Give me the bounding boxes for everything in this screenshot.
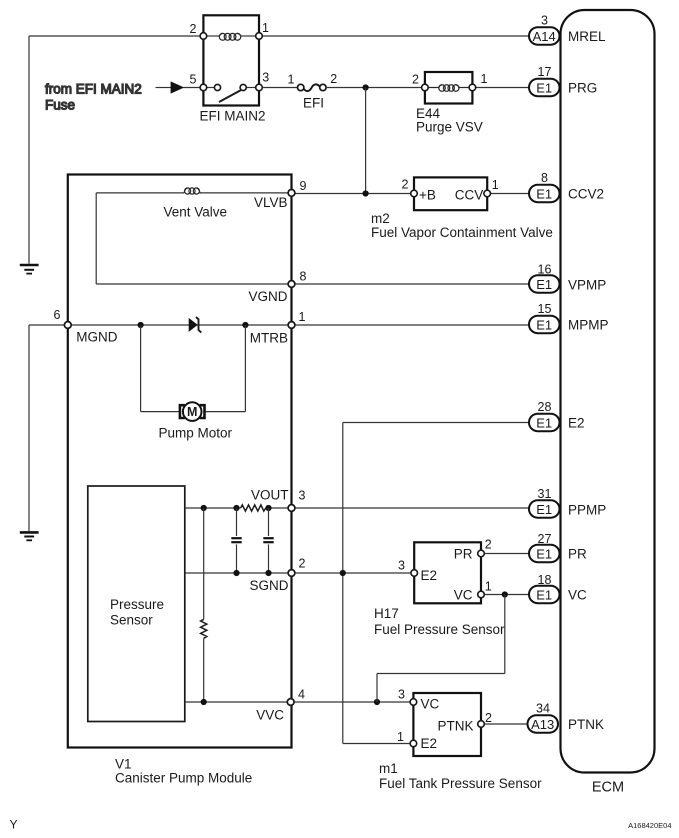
motor M pump motor (183, 402, 202, 421)
svg-text:MREL: MREL (568, 29, 606, 44)
terminal 1 E2 of m1 (410, 740, 417, 747)
svg-text:2: 2 (412, 73, 419, 87)
svg-text:MGND: MGND (76, 330, 117, 345)
svg-text:EFI MAIN2: EFI MAIN2 (200, 109, 266, 124)
svg-text:A14: A14 (533, 29, 556, 44)
wire CCV to CCV2 (491, 193, 530, 195)
svg-text:E1: E1 (536, 277, 552, 292)
switch blade (219, 90, 241, 102)
svg-text:Purge VSV: Purge VSV (416, 120, 483, 135)
terminal 2 (+B) (411, 190, 418, 197)
wire VSV to PRG (476, 87, 529, 89)
switch contact left (214, 84, 220, 90)
svg-text:1: 1 (397, 730, 404, 744)
svg-text:PRG: PRG (568, 81, 597, 96)
svg-text:A168420E04: A168420E04 (628, 821, 671, 830)
svg-text:Canister Pump Module: Canister Pump Module (115, 771, 252, 786)
terminal 2 PTNK of m1 (478, 721, 485, 728)
terminal 2 SGND (288, 570, 295, 577)
resistor vertical branch (201, 508, 207, 702)
node junction left of diode (138, 322, 144, 328)
svg-text:E2: E2 (421, 568, 438, 583)
svg-text:PR: PR (568, 547, 587, 562)
sensor H17 Fuel Pressure Sensor (414, 542, 481, 603)
terminal 5 of relay (200, 84, 207, 91)
node junction E2/SGND (340, 570, 346, 576)
terminal 3 VOUT (288, 505, 295, 512)
svg-text:Pressure: Pressure (110, 597, 164, 612)
wire top horizontal left segment (29, 35, 203, 37)
wire MGND horizontal stub (29, 324, 64, 326)
SECTION: v1 module (54, 175, 530, 786)
svg-text:VOUT: VOUT (251, 487, 289, 502)
coil of purge VSV (428, 85, 469, 91)
svg-text:27: 27 (538, 532, 552, 546)
svg-text:PTNK: PTNK (568, 717, 604, 732)
SECTION: footer (10, 818, 672, 832)
wire arrow shaft (156, 87, 172, 89)
node junctions on VOUT wire (201, 505, 207, 511)
SECTION: ccv (295, 177, 553, 240)
svg-text:2: 2 (299, 557, 306, 571)
vent valve loop wire (96, 193, 288, 284)
svg-text:Fuel Pressure Sensor: Fuel Pressure Sensor (374, 622, 505, 637)
svg-text:VC: VC (568, 588, 587, 603)
connector E1 VPMP pin 16 (529, 263, 606, 293)
terminal 1 MTRB (288, 322, 295, 329)
terminal 3 E2 of H17 (411, 570, 418, 577)
connector E1 VC pin 18 (529, 573, 587, 603)
diode (189, 318, 198, 332)
wire MTRB to MPMP (295, 324, 529, 326)
svg-text:2: 2 (485, 711, 492, 725)
svg-text:1: 1 (288, 73, 295, 87)
svg-text:MTRB: MTRB (250, 331, 288, 346)
wire E2 from ECM down to SGND junction (343, 423, 529, 744)
node arrow from EFI MAIN2 fuse (171, 81, 185, 93)
svg-text:PTNK: PTNK (437, 718, 473, 733)
connector E1 PR pin 27 (529, 532, 587, 562)
svg-text:Sensor: Sensor (110, 613, 153, 628)
svg-text:1: 1 (299, 310, 306, 324)
svg-text:Fuse: Fuse (45, 98, 75, 113)
svg-text:CCV: CCV (455, 188, 484, 203)
svg-text:15: 15 (538, 302, 552, 316)
wire motor branch (141, 325, 246, 412)
svg-text:Fuel Vapor Containment Valve: Fuel Vapor Containment Valve (371, 225, 553, 240)
wire top horizontal right segment to MREL (259, 35, 529, 37)
terminal 1 (CCV) (484, 190, 491, 197)
svg-text:VC: VC (454, 587, 473, 602)
svg-text:CCV2: CCV2 (568, 187, 604, 202)
terminal 3 VC of m1 (410, 699, 417, 706)
node junction on PRG wire (363, 84, 369, 90)
wire E2 bottom row (343, 743, 410, 745)
svg-text:SGND: SGND (249, 578, 288, 593)
relay EFI MAIN2 (203, 15, 259, 105)
svg-text:1: 1 (485, 580, 492, 594)
wire fuse to VSV (326, 87, 422, 89)
svg-text:E2: E2 (568, 416, 585, 431)
wire VVC row (185, 701, 410, 703)
svg-text:VLVB: VLVB (254, 195, 288, 210)
switch contact right (240, 84, 246, 90)
svg-text:6: 6 (54, 308, 61, 322)
wire VC down to fuel tank sensor VC (377, 595, 505, 703)
wire from arrow to relay pin 5 (184, 87, 201, 89)
svg-text:3: 3 (398, 688, 405, 702)
svg-text:MPMP: MPMP (568, 318, 609, 333)
wire PTNK to ECM A13 (485, 723, 528, 725)
resistor horizontal (241, 505, 266, 511)
coil of relay (207, 33, 256, 40)
node junction on CCV wire (363, 190, 369, 196)
svg-text:VPMP: VPMP (568, 278, 606, 293)
svg-text:28: 28 (538, 400, 552, 414)
module V1 Canister Pump Module (68, 175, 292, 748)
svg-text:VVC: VVC (256, 707, 284, 722)
connector E1 E2 pin 28 (529, 400, 585, 431)
SECTION: sensors (295, 423, 542, 792)
svg-text:1: 1 (481, 72, 488, 86)
svg-text:1: 1 (492, 178, 499, 192)
svg-text:5: 5 (190, 73, 197, 87)
node junctions on SGND wire (233, 570, 239, 576)
svg-text:Fuel Tank Pressure Sensor: Fuel Tank Pressure Sensor (379, 776, 542, 791)
svg-text:VGND: VGND (248, 289, 287, 304)
svg-text:1: 1 (262, 21, 269, 35)
wire PR to ECM (485, 553, 530, 555)
svg-text:E1: E1 (536, 80, 552, 95)
coil vent valve (184, 188, 203, 194)
svg-text:8: 8 (300, 270, 307, 284)
wire SGND junction to H17 E2 (295, 572, 410, 574)
svg-text:E1: E1 (536, 587, 552, 602)
svg-text:Vent Valve: Vent Valve (164, 205, 228, 220)
wire inside relay row2 (207, 87, 256, 89)
svg-text:M: M (187, 405, 197, 419)
svg-text:8: 8 (541, 171, 548, 185)
capacitor 2 (263, 508, 273, 573)
sensor m1 Fuel Tank Pressure Sensor (413, 693, 481, 756)
wire SGND row (185, 572, 288, 574)
terminal 6 MGND (64, 322, 71, 329)
connector A13 PTNK pin 34 (528, 702, 605, 733)
svg-text:Y: Y (10, 818, 18, 832)
wire left vertical to ground 1 (28, 36, 30, 264)
connector A14 MREL pin 3 (529, 14, 606, 45)
svg-text:PR: PR (454, 547, 473, 562)
svg-text:E2: E2 (421, 736, 438, 751)
svg-text:V1: V1 (115, 757, 132, 772)
SECTION: top-left wires (20, 36, 529, 540)
wire VGND to VPMP (295, 283, 529, 285)
svg-text:3: 3 (262, 71, 269, 85)
svg-text:Pump Motor: Pump Motor (159, 426, 233, 441)
svg-text:17: 17 (538, 65, 552, 79)
terminal 1 of VSV (469, 84, 476, 91)
svg-text:31: 31 (538, 487, 552, 501)
ground (20, 532, 39, 540)
sensor box Pressure Sensor (88, 486, 185, 722)
svg-text:E1: E1 (536, 186, 552, 201)
svg-text:2: 2 (402, 178, 409, 192)
node junctions on VVC wire (201, 699, 207, 705)
SECTION: fuse-vsv (262, 72, 529, 194)
terminal 3 of relay (256, 84, 263, 91)
svg-text:34: 34 (536, 702, 550, 716)
valve E44 Purge VSV (425, 72, 473, 104)
terminal 9 VLVB (288, 190, 295, 197)
ground (20, 265, 39, 274)
fuse EFI (304, 84, 320, 91)
svg-text:16: 16 (538, 263, 552, 277)
wire MGND row (71, 324, 288, 326)
svg-text:H17: H17 (374, 606, 399, 621)
wire relay pin3 to fuse (262, 87, 297, 89)
svg-text:E1: E1 (536, 317, 552, 332)
SECTION: relay (190, 15, 270, 123)
terminal 2 of VSV (422, 84, 429, 91)
terminal 2 of relay (200, 33, 207, 40)
terminal 2 PR of H17 (478, 550, 485, 557)
terminal 4 VVC (287, 699, 294, 706)
svg-text:+B: +B (419, 188, 436, 203)
node junction on VC wire (502, 591, 508, 597)
svg-text:VC: VC (421, 696, 440, 711)
svg-text:PPMP: PPMP (568, 503, 606, 518)
wire VOUT row (185, 507, 529, 509)
svg-text:ECM: ECM (592, 780, 624, 796)
connector E1 PPMP pin 31 (529, 487, 606, 518)
svg-text:A13: A13 (531, 717, 554, 732)
svg-text:m1: m1 (379, 761, 398, 776)
svg-text:9: 9 (300, 179, 307, 193)
svg-text:3: 3 (541, 14, 548, 28)
svg-text:4: 4 (298, 688, 305, 702)
connector E1 MPMP pin 15 (529, 302, 609, 333)
svg-text:E1: E1 (536, 502, 552, 517)
terminal 1 VC of H17 (478, 591, 485, 598)
svg-text:E1: E1 (536, 546, 552, 561)
svg-text:from EFI MAIN2: from EFI MAIN2 (45, 82, 142, 97)
wire VC to ECM (485, 594, 530, 596)
ECM body (561, 10, 655, 773)
valve m2 Fuel Vapor Containment Valve (414, 177, 487, 210)
wire VLVB to +B (295, 193, 410, 195)
svg-text:m2: m2 (371, 211, 390, 226)
wire left vertical to ground 2 (28, 325, 30, 531)
terminal 8 VGND (288, 281, 295, 288)
terminal 1 of relay (256, 33, 263, 40)
svg-text:18: 18 (538, 573, 552, 587)
svg-text:EFI: EFI (303, 96, 324, 111)
svg-text:2: 2 (330, 72, 337, 86)
wire vertical branch to CCV row (365, 88, 367, 194)
connector E1 PRG pin 17 (529, 65, 597, 96)
svg-text:2: 2 (190, 22, 197, 36)
svg-text:2: 2 (485, 538, 492, 552)
svg-text:3: 3 (299, 489, 306, 503)
node junction right of diode (242, 322, 248, 328)
svg-text:3: 3 (398, 559, 405, 573)
connector E1 CCV2 pin 8 (529, 171, 604, 202)
svg-text:E1: E1 (536, 415, 552, 430)
capacitor 1 (231, 508, 241, 573)
SECTION: ecm (528, 10, 655, 796)
